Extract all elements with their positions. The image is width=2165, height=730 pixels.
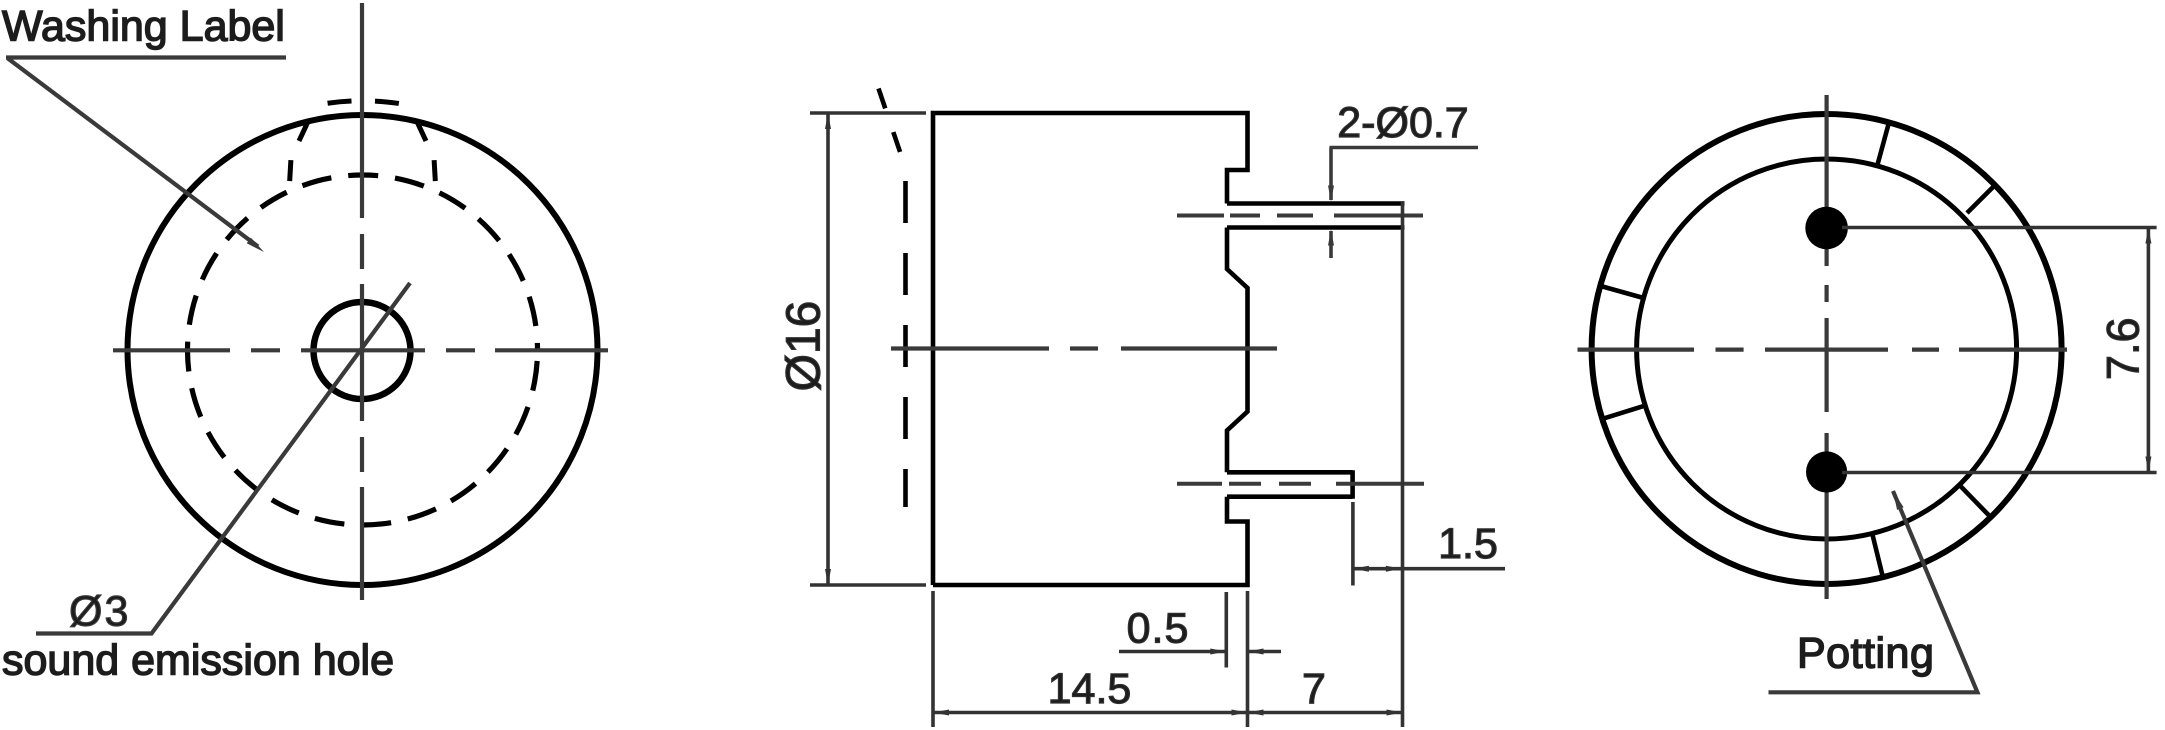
ring tick 2 (upper right) [1967,184,1997,214]
dim 14.5 / 7: extension lines [933,591,1248,727]
horizontal center line [113,348,608,352]
svg-text:14.5: 14.5 [1048,665,1132,713]
pin 1 (upper terminal) [1227,204,1405,228]
body horizontal center line [891,346,1277,350]
ring tick 4 (lower left) [1603,405,1646,418]
ring tick 6 (bottom) [1872,534,1883,578]
svg-text:Ø16: Ø16 [778,301,831,392]
dim 7.6: dimension line [2147,228,2151,473]
inner circle (potting ring) [1637,159,2017,539]
leader line for Potting [1769,491,1978,692]
pin 1 center line [1177,214,1423,218]
svg-text:2-Ø0.7: 2-Ø0.7 [1337,99,1468,147]
svg-text:7.6: 7.6 [2097,318,2148,381]
horizontal center line [1578,348,2068,352]
pin dot lower [1806,451,1847,492]
dim diameter16: extension lines [810,113,926,585]
ring tick 1 (top) [1877,122,1889,165]
ring tick 3 (upper left) [1601,286,1644,298]
outer circle (bottom view) [1592,114,2062,584]
dim 7.6: extension lines [1842,228,2157,473]
dim 1.5: dimension line + arrows [1353,567,1505,571]
dim 0.5: extension line [1225,592,1229,668]
arrowhead of washing label leader [247,238,264,252]
leader line for sound emission hole (through center) [36,283,410,634]
ring tick 5 (lower right) [1960,485,1991,517]
washing label dashed arc (top) [305,101,420,108]
washing label dashed left side [289,111,313,193]
dim diameter16: dimension line [826,113,830,585]
small circle - sound emission hole [314,302,411,399]
pin 2 (lower terminal) [1227,470,1353,499]
pin dot upper [1805,207,1848,250]
washing label over edge (dashed, side view) [879,89,906,169]
svg-text:0.5: 0.5 [1127,605,1190,653]
buzzer body outline [933,113,1248,585]
pin 2 center line [1177,482,1424,486]
washing label dashed right side [412,111,436,193]
svg-text:sound emission hole: sound emission hole [2,637,394,685]
svg-text:Ø3: Ø3 [69,588,130,636]
dim 1.5: extension line from pin2 end [1351,502,1355,586]
svg-text:Potting: Potting [1797,630,1934,678]
inner dashed circle (hidden edge) [188,175,538,525]
vertical center line [1824,95,1828,599]
outer circle (buzzer housing, top view) [128,115,598,585]
svg-text:1.5: 1.5 [1438,520,1498,568]
dim 2-d0.7 leader [1330,148,1479,259]
extension line from pin1 end (for dim 7) [1401,202,1405,727]
dim 0.5: dimension lines + arrows [1119,650,1281,654]
vertical center line [360,3,364,600]
leader line for Washing Label [6,58,286,247]
dim 14.5 / 7: dimension line [933,711,1403,715]
svg-text:Washing Label: Washing Label [2,3,285,51]
svg-text:7: 7 [1302,665,1326,713]
